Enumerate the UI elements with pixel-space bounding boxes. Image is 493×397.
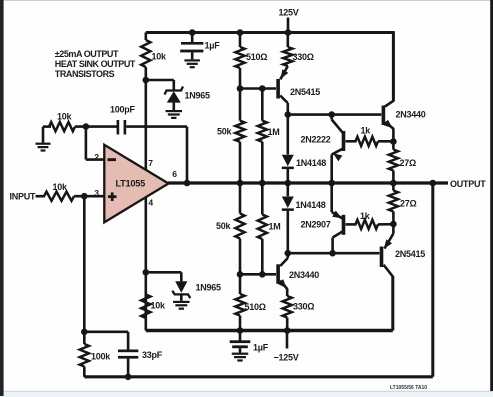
svg-text:1N4148: 1N4148 [296, 200, 326, 210]
svg-text:125V: 125V [279, 8, 299, 18]
svg-text:1k: 1k [361, 126, 372, 136]
svg-text:−125V: −125V [274, 353, 299, 363]
svg-text:6: 6 [172, 169, 177, 179]
svg-text:1M: 1M [268, 127, 280, 137]
svg-text:3: 3 [94, 188, 99, 198]
svg-text:1k: 1k [360, 211, 371, 221]
svg-text:2N3440: 2N3440 [289, 270, 319, 280]
svg-text:1µF: 1µF [205, 41, 221, 51]
svg-text:27Ω: 27Ω [400, 199, 417, 209]
svg-text:2: 2 [94, 152, 99, 162]
svg-text:±25mA OUTPUT: ±25mA OUTPUT [55, 49, 119, 59]
svg-text:10k: 10k [152, 52, 168, 62]
svg-text:510Ω: 510Ω [245, 302, 266, 312]
svg-text:2N2907: 2N2907 [301, 220, 331, 230]
svg-text:4: 4 [148, 198, 153, 208]
svg-text:TRANSISTORS: TRANSISTORS [55, 69, 115, 79]
svg-text:50k: 50k [216, 221, 232, 231]
svg-text:50k: 50k [217, 127, 233, 137]
svg-text:7: 7 [148, 158, 153, 168]
svg-text:10k: 10k [57, 112, 73, 122]
svg-text:27Ω: 27Ω [400, 158, 417, 168]
svg-text:2N5415: 2N5415 [290, 87, 320, 97]
svg-text:1N965: 1N965 [185, 91, 211, 101]
svg-text:330Ω: 330Ω [293, 52, 314, 62]
svg-text:510Ω: 510Ω [246, 52, 267, 62]
svg-text:1M: 1M [269, 222, 281, 232]
svg-text:100pF: 100pF [110, 105, 136, 115]
svg-text:1N965: 1N965 [196, 283, 222, 293]
svg-text:10k: 10k [151, 301, 167, 311]
svg-text:HEAT SINK OUTPUT: HEAT SINK OUTPUT [55, 59, 136, 69]
svg-text:LT1055/56 TA10: LT1055/56 TA10 [390, 385, 427, 391]
svg-text:OUTPUT: OUTPUT [450, 179, 486, 189]
svg-text:33pF: 33pF [142, 350, 163, 360]
svg-text:100k: 100k [91, 352, 111, 362]
svg-text:1µF: 1µF [253, 343, 269, 353]
svg-text:1N4148: 1N4148 [296, 158, 326, 168]
svg-text:2N3440: 2N3440 [396, 110, 426, 120]
svg-text:330Ω: 330Ω [293, 302, 314, 312]
svg-text:10k: 10k [53, 182, 69, 192]
svg-text:LT1055: LT1055 [116, 179, 146, 189]
svg-text:2N2222: 2N2222 [301, 135, 331, 145]
svg-text:2N5415: 2N5415 [395, 249, 425, 259]
svg-text:INPUT: INPUT [10, 192, 37, 202]
